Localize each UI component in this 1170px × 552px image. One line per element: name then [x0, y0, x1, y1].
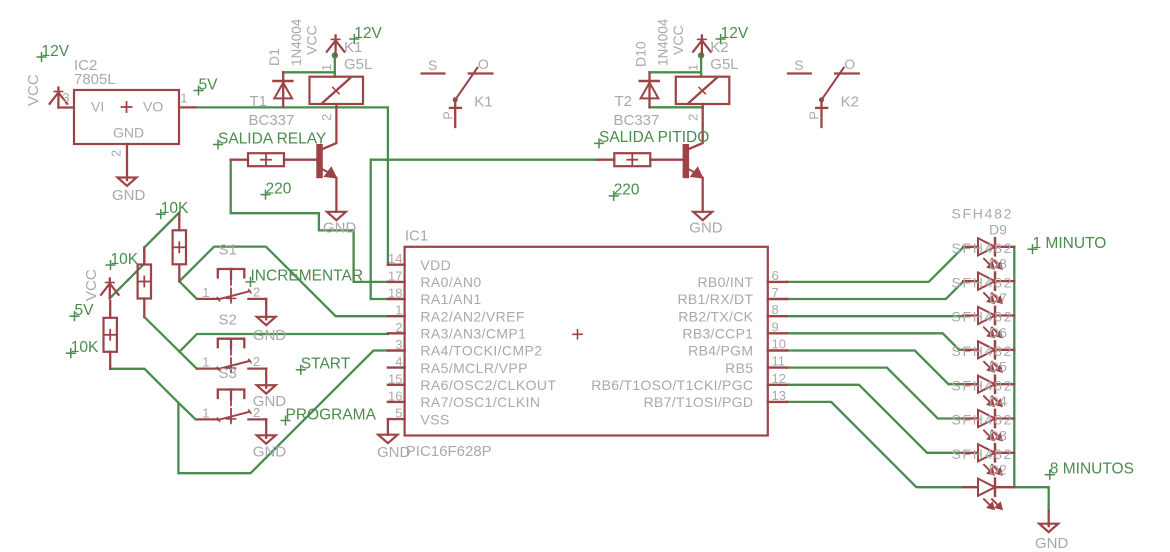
svg-text:RB1/RX/DT: RB1/RX/DT — [677, 291, 753, 307]
svg-text:RB7/T1OSI/PGD: RB7/T1OSI/PGD — [644, 394, 754, 410]
svg-text:5V: 5V — [75, 302, 95, 319]
svg-text:10K: 10K — [161, 200, 189, 217]
svg-text:12: 12 — [772, 371, 786, 386]
svg-text:1: 1 — [202, 285, 209, 300]
svg-text:RA3/AN3/CMP1: RA3/AN3/CMP1 — [420, 326, 526, 342]
svg-text:GND: GND — [253, 327, 286, 344]
svg-text:220: 220 — [614, 182, 640, 199]
svg-text:RB3/CCP1: RB3/CCP1 — [682, 326, 753, 342]
svg-text:T2: T2 — [615, 93, 633, 110]
svg-text:GND: GND — [113, 125, 144, 141]
svg-text:16: 16 — [388, 388, 402, 403]
svg-text:2: 2 — [395, 320, 402, 335]
svg-text:4: 4 — [395, 354, 402, 369]
svg-text:8 MINUTOS: 8 MINUTOS — [1050, 461, 1134, 478]
svg-text:RB5: RB5 — [725, 360, 753, 376]
svg-text:2: 2 — [253, 405, 260, 420]
svg-text:3: 3 — [395, 337, 402, 352]
svg-text:RA7/OSC1/CLKIN: RA7/OSC1/CLKIN — [420, 394, 540, 410]
svg-text:T1: T1 — [250, 93, 268, 110]
svg-text:S: S — [428, 57, 437, 73]
svg-text:SFH482: SFH482 — [952, 343, 1014, 359]
svg-text:D2: D2 — [989, 462, 1007, 478]
svg-text:VDD: VDD — [420, 257, 451, 273]
svg-text:O: O — [844, 56, 855, 72]
svg-text:RB4/PGM: RB4/PGM — [688, 343, 753, 359]
svg-text:GND: GND — [253, 444, 286, 461]
svg-text:12V: 12V — [354, 25, 382, 42]
svg-text:RA4/TOCKI/CMP2: RA4/TOCKI/CMP2 — [420, 343, 542, 359]
svg-text:14: 14 — [388, 251, 402, 266]
svg-text:D7: D7 — [989, 290, 1007, 306]
svg-text:VO: VO — [143, 99, 163, 115]
svg-text:1: 1 — [202, 405, 209, 420]
svg-text:K2: K2 — [841, 94, 859, 111]
svg-text:GND: GND — [323, 220, 357, 237]
svg-text:13: 13 — [772, 388, 786, 403]
svg-text:10K: 10K — [71, 339, 99, 356]
svg-text:1: 1 — [202, 355, 209, 370]
svg-text:PROGRAMA: PROGRAMA — [286, 406, 377, 423]
svg-text:GND: GND — [377, 444, 411, 461]
svg-text:8: 8 — [772, 302, 779, 317]
svg-text:S2: S2 — [219, 312, 237, 329]
svg-text:O: O — [478, 56, 489, 72]
svg-text:VCC: VCC — [670, 25, 686, 55]
svg-text:D1: D1 — [266, 48, 282, 66]
svg-text:1N4004: 1N4004 — [289, 18, 304, 66]
svg-text:VSS: VSS — [420, 411, 449, 427]
svg-text:1N4004: 1N4004 — [656, 18, 671, 66]
svg-text:SFH482: SFH482 — [952, 412, 1014, 428]
svg-text:9: 9 — [772, 319, 779, 334]
svg-text:17: 17 — [388, 268, 402, 283]
svg-text:RB2/TX/CK: RB2/TX/CK — [678, 308, 753, 324]
svg-text:G5L: G5L — [710, 56, 738, 73]
svg-text:GND: GND — [689, 220, 723, 237]
svg-text:D9: D9 — [989, 221, 1007, 237]
svg-text:K1: K1 — [474, 94, 492, 111]
svg-text:INCREMENTAR: INCREMENTAR — [251, 268, 364, 285]
svg-text:10: 10 — [772, 337, 786, 352]
svg-text:SFH482: SFH482 — [952, 377, 1014, 393]
svg-text:SFH482: SFH482 — [952, 446, 1014, 462]
svg-text:220: 220 — [266, 180, 292, 197]
svg-text:SALIDA PITIDO: SALIDA PITIDO — [599, 129, 709, 146]
svg-text:7805L: 7805L — [74, 71, 116, 88]
svg-text:11: 11 — [772, 354, 786, 369]
svg-text:VCC: VCC — [25, 74, 42, 106]
svg-text:12V: 12V — [42, 43, 70, 60]
svg-text:12V: 12V — [721, 25, 749, 42]
svg-text:RB0/INT: RB0/INT — [698, 274, 754, 290]
svg-text:2: 2 — [109, 150, 124, 157]
svg-text:RA1/AN1: RA1/AN1 — [420, 291, 481, 307]
svg-text:RB6/T1OSO/T1CKI/PGC: RB6/T1OSO/T1CKI/PGC — [591, 377, 753, 393]
svg-text:SFH482: SFH482 — [952, 240, 1014, 256]
svg-text:10K: 10K — [111, 251, 139, 268]
svg-text:S3: S3 — [219, 365, 237, 382]
svg-text:P: P — [440, 111, 455, 120]
svg-text:VCC: VCC — [83, 269, 100, 301]
svg-text:3: 3 — [62, 90, 69, 105]
svg-text:D8: D8 — [989, 256, 1007, 272]
svg-text:5: 5 — [395, 406, 402, 421]
svg-text:2: 2 — [685, 114, 700, 121]
svg-text:START: START — [301, 356, 351, 373]
svg-text:1: 1 — [319, 64, 334, 71]
svg-text:G5L: G5L — [344, 56, 372, 73]
svg-text:1: 1 — [395, 303, 402, 318]
svg-text:2: 2 — [253, 354, 260, 369]
svg-text:SFH482: SFH482 — [952, 274, 1014, 290]
svg-text:GND: GND — [112, 187, 146, 204]
svg-text:PIC16F628P: PIC16F628P — [406, 443, 492, 460]
svg-text:GND: GND — [1035, 535, 1069, 552]
svg-text:IC1: IC1 — [405, 228, 428, 245]
svg-text:S: S — [794, 57, 803, 73]
svg-text:1: 1 — [685, 64, 700, 71]
svg-text:RA5/MCLR/VPP: RA5/MCLR/VPP — [420, 360, 528, 376]
svg-text:SALIDA RELAY: SALIDA RELAY — [218, 130, 326, 147]
svg-text:1: 1 — [180, 91, 187, 106]
svg-text:18: 18 — [388, 286, 402, 301]
svg-text:P: P — [807, 111, 822, 120]
svg-text:RA0/AN0: RA0/AN0 — [420, 274, 481, 290]
svg-text:D10: D10 — [633, 41, 649, 67]
svg-text:BC337: BC337 — [249, 112, 295, 129]
svg-text:VCC: VCC — [304, 25, 320, 55]
svg-text:15: 15 — [388, 371, 402, 386]
svg-text:RA6/OSC2/CLKOUT: RA6/OSC2/CLKOUT — [420, 377, 556, 393]
svg-text:2: 2 — [253, 284, 260, 299]
svg-text:S1: S1 — [219, 242, 237, 259]
svg-text:D5: D5 — [989, 359, 1007, 375]
svg-text:1 MINUTO: 1 MINUTO — [1033, 235, 1107, 252]
svg-text:BC337: BC337 — [614, 112, 660, 129]
svg-text:7: 7 — [772, 285, 779, 300]
svg-text:5V: 5V — [199, 76, 219, 93]
svg-text:D6: D6 — [989, 324, 1007, 340]
svg-text:SFH482: SFH482 — [952, 206, 1014, 222]
svg-text:RA2/AN2/VREF: RA2/AN2/VREF — [420, 308, 524, 324]
svg-text:D3: D3 — [989, 427, 1007, 443]
svg-text:VI: VI — [91, 99, 104, 115]
svg-text:2: 2 — [319, 114, 334, 121]
svg-text:SFH482: SFH482 — [952, 309, 1014, 325]
svg-text:6: 6 — [772, 268, 779, 283]
svg-text:D4: D4 — [989, 393, 1007, 409]
